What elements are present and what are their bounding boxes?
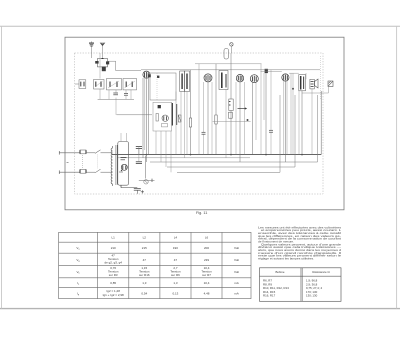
svg-text:~: ~ <box>66 160 69 165</box>
capacitor C14 <box>269 130 273 132</box>
fuse loop F <box>224 49 229 60</box>
output transformer T3 <box>299 75 306 91</box>
wire <box>99 53 101 79</box>
svg-text:sur R3: sur R3 <box>109 273 118 277</box>
svg-text:Ig1 + Ig2 = 2,98: Ig1 + Ig2 = 2,98 <box>103 293 124 297</box>
wire <box>148 78 150 155</box>
wire <box>235 82 237 155</box>
wire <box>125 90 127 93</box>
wire <box>142 78 144 158</box>
wire <box>160 131 162 162</box>
tuning cell CV2 <box>107 79 122 90</box>
svg-text:0,85: 0,85 <box>110 281 116 285</box>
svg-text:Volt: Volt <box>234 258 239 262</box>
wire <box>301 91 303 155</box>
wire <box>130 90 132 100</box>
tube V4 <box>250 75 258 83</box>
wire <box>292 73 294 154</box>
wire <box>170 131 172 172</box>
wire <box>138 147 140 162</box>
antenna coil box A1 <box>95 59 109 67</box>
return bus 3 <box>177 95 280 172</box>
wire <box>225 90 227 158</box>
volume pot <box>213 99 251 122</box>
wire <box>203 82 205 132</box>
wire <box>190 127 192 155</box>
antenna <box>100 43 105 59</box>
tube V1 <box>143 71 150 78</box>
detector coil L7 <box>172 103 176 126</box>
RIGHT TEXT <box>258 225 342 260</box>
dotted lead <box>319 56 321 100</box>
wire <box>138 148 140 154</box>
svg-text:mA: mA <box>234 292 239 296</box>
wire <box>186 92 188 155</box>
capacitor C3 <box>124 93 128 95</box>
wire <box>283 81 285 155</box>
oscillator coil marks <box>149 74 160 78</box>
switch link dotted <box>82 155 84 169</box>
svg-text:Volt: Volt <box>234 270 239 274</box>
bus 2 <box>117 157 250 159</box>
svg-text:0,54: 0,54 <box>141 292 147 296</box>
left terminal cell <box>75 80 86 89</box>
wire <box>98 98 134 100</box>
schematic border <box>65 37 344 210</box>
wire <box>125 96 127 99</box>
tuning cell CV1 <box>94 80 105 90</box>
wire <box>165 131 167 167</box>
wire <box>284 81 286 162</box>
wire <box>203 135 205 155</box>
wire <box>108 90 110 100</box>
ground <box>89 42 94 58</box>
wire <box>145 78 147 162</box>
wire <box>290 73 292 154</box>
capacitor C2 <box>113 93 118 95</box>
wire <box>120 133 122 142</box>
wire <box>311 89 313 155</box>
resistor R8 <box>215 115 217 124</box>
loudspeaker <box>315 79 334 88</box>
svg-text:Fig. 11: Fig. 11 <box>196 211 207 215</box>
pilot lamp P <box>230 43 233 53</box>
svg-text:L2: L2 <box>143 236 147 240</box>
wire <box>108 61 142 70</box>
wire <box>239 82 241 162</box>
svg-text:10,4: 10,4 <box>204 281 210 285</box>
speaker return wire <box>302 92 328 94</box>
BIG TABLE <box>59 232 251 298</box>
tuning cell CV3 <box>123 79 137 90</box>
SMALL TABLE <box>260 268 342 302</box>
resistor R9 <box>178 115 181 122</box>
wire <box>207 82 209 155</box>
return bus 1 <box>150 95 318 162</box>
magic eye box <box>153 102 172 131</box>
wire <box>327 87 329 94</box>
wire <box>298 91 300 155</box>
wire <box>270 70 272 130</box>
cap C32 <box>121 185 144 194</box>
svg-text:Volt: Volt <box>234 246 239 250</box>
wire <box>99 89 101 99</box>
wire <box>215 124 217 155</box>
capacitor C11 <box>202 132 206 134</box>
wire <box>230 111 232 155</box>
tube V3 <box>236 75 243 82</box>
capacitor C20 <box>265 69 268 73</box>
svg-text:1,3: 1,3 <box>142 281 147 285</box>
magic eye V6 <box>156 105 168 127</box>
rectifier V7 <box>119 158 127 173</box>
svg-text:Résistance Ω: Résistance Ω <box>312 270 330 274</box>
wire <box>155 131 157 155</box>
wire forest <box>98 53 312 172</box>
wire <box>198 64 200 155</box>
oscillator box <box>150 73 176 100</box>
wire <box>260 64 262 155</box>
svg-text:sur R16: sur R16 <box>139 273 150 277</box>
filter cap C31 <box>136 162 142 164</box>
filter cap C30 <box>136 147 142 149</box>
svg-text:réglage et suivant les lampes: réglage et suivant les lampes utilisées. <box>258 257 314 261</box>
svg-text:47: 47 <box>143 258 147 262</box>
mains line 1 <box>59 150 112 155</box>
mains line 2 <box>59 169 112 174</box>
resistor R5 <box>189 118 191 127</box>
wire <box>115 98 117 115</box>
AVC dotted line <box>156 73 158 100</box>
svg-text:L6: L6 <box>205 236 209 240</box>
svg-text:47: 47 <box>174 258 178 262</box>
svg-text:sur R7: sur R7 <box>202 273 211 277</box>
wire <box>270 133 272 155</box>
svg-text:0,13: 0,13 <box>172 292 178 296</box>
svg-text:L1: L1 <box>112 236 116 240</box>
wire <box>289 72 299 74</box>
wire <box>263 73 265 120</box>
wire <box>261 71 282 73</box>
wire <box>244 82 246 155</box>
shield dashed border <box>75 53 324 194</box>
wire <box>252 83 254 155</box>
wire <box>184 92 186 158</box>
node J1 <box>292 88 294 90</box>
return bus 2 <box>167 95 295 167</box>
svg-text:215: 215 <box>142 246 147 250</box>
wire <box>175 92 177 155</box>
main HT bus <box>112 91 321 155</box>
wire <box>305 73 307 79</box>
coil L0 <box>102 67 106 72</box>
svg-text:210: 210 <box>111 246 116 250</box>
wire <box>255 83 257 140</box>
svg-text:mA: mA <box>234 281 239 285</box>
svg-text:4,48: 4,48 <box>204 292 210 296</box>
wire <box>265 73 267 155</box>
svg-text:Bobine: Bobine <box>275 270 284 274</box>
svg-text:1,3: 1,3 <box>173 281 178 285</box>
wire rail 2 <box>195 63 262 65</box>
wire <box>211 82 213 155</box>
svg-text:de g2, g3, g4: de g2, g3, g4 <box>104 260 122 264</box>
tube V2 <box>204 74 212 82</box>
dial lamp branch <box>139 156 155 184</box>
power transformer T4 <box>111 142 129 187</box>
wire <box>117 114 153 116</box>
svg-text:239: 239 <box>204 258 209 262</box>
IF transformer T1 <box>180 71 190 92</box>
svg-text:130; 130: 130; 130 <box>306 294 318 298</box>
wire <box>144 78 146 150</box>
IF transformer T2 <box>219 71 228 90</box>
svg-text:sur R6: sur R6 <box>171 273 180 277</box>
svg-text:R16, R17: R16, R17 <box>263 294 276 298</box>
wire <box>190 70 192 118</box>
resistor R20 <box>310 79 314 89</box>
wire <box>230 53 232 99</box>
svg-text:L4: L4 <box>174 236 178 240</box>
wire top rail <box>141 69 320 71</box>
wire <box>126 133 128 142</box>
tube V5 <box>282 74 289 81</box>
wire <box>215 64 217 115</box>
wire <box>286 81 288 155</box>
wire <box>115 90 117 93</box>
svg-text:190: 190 <box>173 246 178 250</box>
wire <box>180 92 182 155</box>
svg-text:200: 200 <box>204 246 209 250</box>
